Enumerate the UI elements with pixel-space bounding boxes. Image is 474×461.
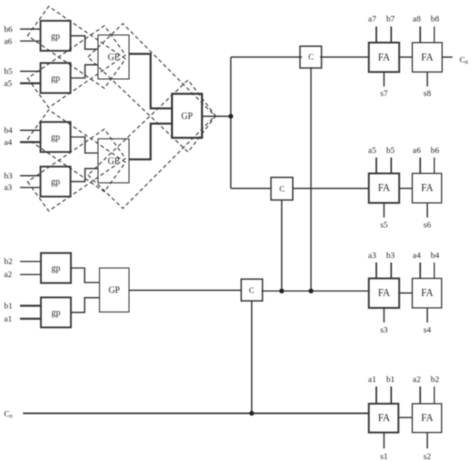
wire GP upper to GP big	[129, 54, 172, 109]
node junction C2 stub on carry line	[279, 289, 284, 294]
svg-text:gp: gp	[51, 31, 61, 41]
wire FA3 to FA4	[399, 187, 412, 189]
wire s3 stub	[383, 308, 385, 323]
node junction C1 stub on carry line	[309, 289, 314, 294]
wire trunk to C1	[231, 56, 302, 58]
wire C3 to FA5	[262, 290, 369, 292]
wire s2 stub	[426, 433, 428, 449]
svg-text:b6: b6	[4, 24, 13, 34]
svg-text:GP: GP	[181, 111, 193, 121]
svg-text:FA: FA	[421, 183, 434, 194]
svg-text:C0: C0	[4, 409, 13, 421]
FA cell FA6bit	[412, 173, 441, 203]
wire C3 down stub	[251, 301, 253, 414]
wire b4 input	[20, 129, 41, 131]
wire a8 stub	[419, 27, 421, 43]
svg-text:s6: s6	[423, 220, 431, 230]
FA cell FA2bit	[412, 404, 441, 433]
wire b5 stub	[390, 158, 392, 174]
svg-text:s5: s5	[380, 220, 388, 230]
svg-text:a5: a5	[368, 145, 376, 155]
GP cell big	[172, 94, 202, 138]
wire s1 stub	[383, 433, 385, 449]
svg-text:a4: a4	[4, 137, 13, 147]
node junction C3 stub on Cin line	[249, 411, 254, 416]
svg-text:b6: b6	[431, 145, 440, 155]
svg-text:FA: FA	[378, 183, 391, 194]
dashed group outline D6 (GP lower to GP big)	[88, 80, 215, 208]
wire C2 to FA3	[293, 187, 369, 189]
node junction at GP big output	[228, 114, 233, 119]
wire C1 to FA1	[320, 56, 369, 58]
gp cell gp2 (b5 a5)	[41, 63, 71, 93]
svg-text:b1: b1	[4, 301, 13, 311]
svg-text:GP: GP	[108, 156, 120, 166]
gp cell gp1 (b6 a6)	[41, 21, 71, 51]
svg-text:a4: a4	[413, 250, 422, 260]
wire a3 stub	[375, 263, 377, 279]
wire a6 stub	[419, 158, 421, 174]
svg-text:s2: s2	[423, 451, 431, 461]
svg-text:s8: s8	[423, 88, 431, 98]
svg-text:a6: a6	[4, 36, 12, 46]
svg-text:b5: b5	[4, 66, 13, 76]
FA cell FA3bit	[369, 278, 399, 308]
C cell C2	[271, 177, 293, 200]
svg-text:b5: b5	[386, 145, 395, 155]
gp cell gp5 (b2 a2)	[41, 253, 71, 283]
svg-text:b4: b4	[431, 250, 440, 260]
wire gp1 to GP upper	[71, 36, 99, 49]
svg-text:a8: a8	[413, 13, 421, 23]
wire s4 stub	[426, 308, 428, 323]
svg-text:gp: gp	[51, 73, 61, 83]
svg-text:b3: b3	[386, 250, 395, 260]
wire gp4 to GP lower	[71, 169, 99, 182]
svg-text:b8: b8	[431, 13, 440, 23]
svg-text:FA: FA	[421, 52, 434, 63]
FA cell FA8bit	[412, 43, 442, 72]
wire a4 stub	[419, 263, 421, 279]
wire a3 input	[20, 187, 41, 189]
svg-text:b2: b2	[431, 374, 440, 384]
svg-text:FA: FA	[378, 288, 391, 299]
wire b7 stub	[390, 27, 392, 43]
wire gp2 to GP upper	[71, 65, 99, 78]
wire b8 stub	[433, 27, 435, 43]
GP cell upper	[98, 35, 129, 79]
gp cell gp3 (b4 a4)	[41, 122, 71, 152]
svg-text:C: C	[279, 185, 284, 194]
svg-text:gp: gp	[51, 177, 61, 187]
svg-text:a5: a5	[4, 78, 12, 88]
wire GP2 to C3	[129, 289, 242, 291]
wire a2 stub	[419, 387, 421, 404]
wire FA7 to FA8	[399, 417, 412, 419]
wire GP lower to GP big	[129, 124, 172, 160]
svg-text:gp: gp	[51, 263, 61, 273]
svg-text:C8: C8	[460, 54, 469, 66]
svg-text:b4: b4	[4, 125, 13, 135]
wire a1 input	[20, 318, 41, 320]
wire a4 input	[20, 141, 41, 143]
svg-text:s4: s4	[423, 324, 431, 334]
wire FA5 to FA6	[399, 292, 412, 294]
wire FA1 to FA2	[399, 56, 412, 58]
gp cell gp4 (b3 a3)	[41, 167, 71, 197]
svg-text:b3: b3	[4, 170, 13, 180]
FA cell FA5bit	[369, 173, 399, 203]
wire b6 stub	[433, 158, 435, 174]
svg-text:b7: b7	[386, 13, 395, 23]
dashed group outline D3 (gp b4a4 to GP lower)	[28, 110, 126, 192]
svg-text:C: C	[308, 53, 313, 62]
svg-text:FA: FA	[421, 288, 434, 299]
wire s7 stub	[383, 72, 385, 87]
dashed group outline D5 (GP upper to GP big)	[88, 24, 215, 152]
svg-text:C: C	[249, 286, 254, 295]
svg-text:b1: b1	[386, 374, 395, 384]
wire trunk to C2	[231, 187, 272, 189]
svg-text:a6: a6	[413, 145, 421, 155]
svg-text:FA: FA	[378, 413, 391, 424]
wire b2 stub	[433, 387, 435, 404]
dashed group outline D2 (gp b5a5 to GP upper)	[28, 26, 126, 108]
wire a5 stub	[375, 158, 377, 174]
wire b3 input	[20, 175, 41, 177]
wire a7 stub	[375, 27, 377, 43]
svg-text:s3: s3	[380, 324, 388, 334]
svg-text:GP: GP	[108, 285, 120, 295]
svg-text:a2: a2	[413, 374, 421, 384]
svg-text:b2: b2	[4, 256, 13, 266]
svg-text:a3: a3	[4, 182, 12, 192]
wire a1 stub	[375, 387, 377, 404]
wire b1 stub	[390, 387, 392, 404]
wire gp5 to GP2	[70, 268, 100, 283]
wire FA2 to C8 output	[442, 56, 452, 58]
svg-text:s1: s1	[380, 451, 388, 461]
wire trunk vertical	[230, 57, 232, 188]
svg-text:a1: a1	[4, 314, 12, 324]
svg-text:gp: gp	[51, 307, 61, 317]
FA cell FA7bit	[369, 43, 399, 72]
wire gp3 to GP lower	[71, 137, 99, 153]
wire s5 stub	[383, 203, 385, 218]
wire b2 input	[20, 261, 41, 263]
svg-text:a3: a3	[368, 250, 376, 260]
wire Cin line	[23, 412, 369, 414]
wire b5 input	[20, 70, 41, 72]
svg-text:FA: FA	[421, 413, 434, 424]
dashed group outline D4 (gp b3a3 to GP lower)	[28, 129, 126, 211]
wire a2 input	[20, 274, 41, 276]
svg-text:a2: a2	[4, 269, 12, 279]
wire s8 stub	[426, 72, 428, 87]
wire s6 stub	[426, 203, 428, 218]
svg-text:gp: gp	[51, 132, 61, 142]
svg-text:s7: s7	[380, 88, 388, 98]
wire a6 input	[20, 40, 41, 42]
wire b6 input	[20, 28, 41, 30]
gp cell gp6 (b1 a1)	[41, 297, 71, 327]
C cell C1	[300, 46, 322, 68]
wire b3 stub	[390, 263, 392, 279]
wire C1 down stub	[310, 67, 312, 291]
wire a5 input	[20, 82, 41, 84]
svg-text:FA: FA	[378, 52, 391, 63]
wire b1 input	[20, 305, 41, 307]
wire b4 stub	[433, 263, 435, 279]
wire gp6 to GP2	[71, 298, 99, 313]
dashed group outline D1 (gp b6a6 to GP upper)	[28, 6, 126, 88]
wire C2 down stub	[281, 200, 283, 292]
GP cell GP2	[100, 268, 130, 312]
svg-text:GP: GP	[108, 52, 120, 62]
FA cell FA1bit	[369, 404, 399, 433]
FA cell FA4bit	[412, 278, 441, 308]
GP cell lower	[98, 139, 129, 183]
C cell C3	[241, 279, 262, 301]
wire GP big output to trunk	[202, 115, 231, 117]
svg-text:a1: a1	[368, 374, 376, 384]
svg-text:a7: a7	[368, 13, 376, 23]
